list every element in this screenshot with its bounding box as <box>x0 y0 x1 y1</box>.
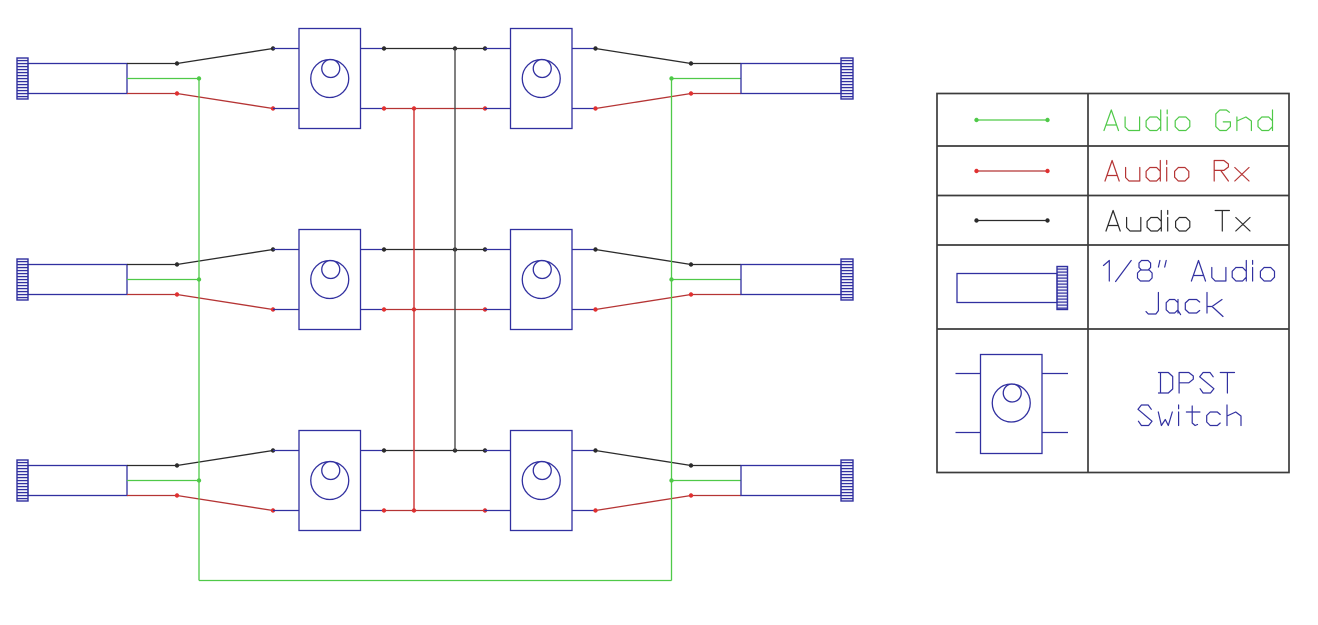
wire: audio Tx, switch S3 to switch S4 <box>382 247 487 251</box>
wire: audio Rx, switch S1 to switch S2 <box>382 106 487 110</box>
legend label: Audio Gnd <box>1104 110 1273 131</box>
wire: audio Tx, switch S2 to jack J4 tip <box>593 46 741 65</box>
wire: left audio Gnd bus (vertical) <box>198 79 200 581</box>
wire: audio Tx, switch S4 to jack J5 tip <box>593 247 741 266</box>
legend: Audio Tx sample wire <box>974 218 1049 222</box>
legend: Audio Gnd sample wire <box>974 118 1049 122</box>
legend label: 1/8in Audio Jack line 2 <box>1146 293 1223 317</box>
wire: audio Rx, switch S5 to switch S6 <box>382 508 487 512</box>
1/8in audio jack J4 (right, row 1) <box>741 58 853 99</box>
wire: audio Gnd, right ground bus to jack J4 sleeve <box>669 76 741 80</box>
legend label: DPST Switch line 2 <box>1138 405 1241 426</box>
junction: Rx bus tap row 3 <box>412 508 416 512</box>
wire: audio Tx, switch S5 to switch S6 <box>382 448 487 452</box>
legend symbol: 1/8in audio jack <box>957 267 1068 310</box>
junction: Tx bus tap row 1 <box>453 46 457 50</box>
wire: right audio Gnd bus (vertical) <box>671 79 673 581</box>
1/8in audio jack J3 (left, row 3) <box>17 460 127 501</box>
wire: audio Rx, switch S6 to jack J6 ring <box>593 493 741 512</box>
wire: bottom audio Gnd bus (horizontal) <box>199 580 672 582</box>
junction: Tx bus tap row 3 <box>453 448 457 452</box>
legend: Audio Rx sample wire <box>974 169 1049 173</box>
DPST switch S6 (row 3 right) <box>485 431 597 531</box>
wire: audio Tx, switch S6 to jack J6 tip <box>593 448 741 467</box>
DPST switch S4 (row 2 right) <box>485 230 597 330</box>
wire: audio Gnd, jack J1 sleeve to left ground bus <box>127 76 201 80</box>
junction: Rx bus tap row 1 <box>412 106 416 110</box>
wire: audio Tx, jack J1 tip to switch S1 pin 1 <box>127 46 275 65</box>
DPST switch S3 (row 2 left) <box>273 230 385 330</box>
junction: Rx bus tap row 2 <box>412 307 416 311</box>
wire: audio Gnd, right ground bus to jack J6 sleeve <box>669 478 741 482</box>
legend table frame <box>937 94 1289 473</box>
junction: Tx bus tap row 2 <box>453 247 457 251</box>
wire: audio Gnd, jack J3 sleeve to left ground bus <box>127 478 201 482</box>
wire: audio Rx, jack J2 ring to switch S3 pin 2 <box>127 292 275 311</box>
DPST switch S1 (row 1 left) <box>273 29 385 129</box>
legend label: Audio Rx <box>1105 161 1249 182</box>
DPST switch S5 (row 3 left) <box>273 431 385 531</box>
legend label: DPST Switch line 1 <box>1159 373 1235 394</box>
wire: audio Gnd, right ground bus to jack J5 sleeve <box>669 277 741 281</box>
wire: audio Tx, jack J3 tip to switch S5 pin 1 <box>127 448 275 467</box>
1/8in audio jack J2 (left, row 2) <box>17 259 127 300</box>
wire: audio Tx, jack J2 tip to switch S3 pin 1 <box>127 247 275 266</box>
legend label: 1/8in Audio Jack line 1 <box>1104 261 1275 282</box>
wire: audio Rx, switch S4 to jack J5 ring <box>593 292 741 311</box>
1/8in audio jack J6 (right, row 3) <box>741 460 853 501</box>
wire: audio Tx bus (vertical) <box>454 49 456 451</box>
wire: audio Rx, jack J1 ring to switch S1 pin 2 <box>127 91 275 110</box>
wire: audio Tx, switch S1 to switch S2 <box>382 46 487 50</box>
legend symbol: DPST switch <box>956 355 1069 454</box>
wire: audio Rx, switch S2 to jack J4 ring <box>593 91 741 110</box>
legend label: Audio Tx <box>1106 211 1250 232</box>
1/8in audio jack J5 (right, row 2) <box>741 259 853 300</box>
DPST switch S2 (row 1 right) <box>485 29 597 129</box>
wire: audio Rx bus (vertical) <box>413 109 415 511</box>
wire: audio Rx, jack J3 ring to switch S5 pin 2 <box>127 493 275 512</box>
wire: audio Rx, switch S3 to switch S4 <box>382 307 487 311</box>
1/8in audio jack J1 (left, row 1) <box>17 58 127 99</box>
wire: audio Gnd, jack J2 sleeve to left ground bus <box>127 277 201 281</box>
